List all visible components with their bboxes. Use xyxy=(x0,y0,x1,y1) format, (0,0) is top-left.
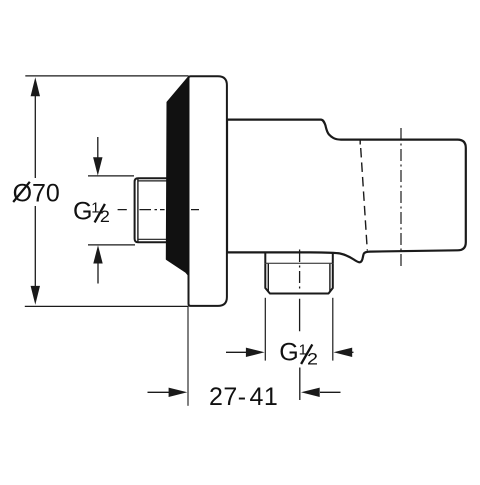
outlet neck right xyxy=(332,253,334,264)
label G1/2 bottom: fraction slash xyxy=(301,344,312,364)
hidden edge dashed line xyxy=(359,139,361,145)
G1/2 left: extension line bottom xyxy=(88,244,135,246)
outlet shoulder xyxy=(265,263,333,265)
G1/2 left: arrow up xyxy=(97,262,99,284)
27-41: arrow right xyxy=(148,391,170,393)
27-41: arrow left xyxy=(320,391,341,393)
inlet thread root bottom xyxy=(139,238,168,240)
escutcheon flange (rounded) xyxy=(189,76,227,306)
arrowhead up O70 xyxy=(31,77,40,96)
G1/2 bottom: extension line right xyxy=(332,298,334,361)
svg-text:G: G xyxy=(279,339,298,367)
G1/2 left: extension line top xyxy=(88,175,134,177)
outlet centerline xyxy=(299,250,301,332)
outlet chamfer line left xyxy=(267,264,269,293)
wall face extension line xyxy=(187,306,189,406)
body outline xyxy=(227,120,466,263)
left connector centerline xyxy=(118,209,199,211)
outlet centerline extension below text xyxy=(299,368,301,401)
G1/2 left: arrow down xyxy=(97,137,99,159)
threaded inlet connector (left, G1/2) xyxy=(135,178,168,242)
outlet neck left xyxy=(264,252,266,263)
outlet chamfer line right xyxy=(329,264,331,293)
svg-text:27-41: 27-41 xyxy=(209,383,278,411)
inlet chamfer line xyxy=(137,179,139,243)
arrowhead down O70 xyxy=(31,286,40,305)
label O70 diameter slash xyxy=(13,182,30,202)
inlet thread root top xyxy=(139,180,168,182)
G1/2 bottom: arrow left xyxy=(351,351,354,353)
svg-text:2: 2 xyxy=(307,350,318,368)
dimension extension line top (O70) xyxy=(25,75,188,77)
outlet thread outline xyxy=(265,264,333,294)
flange cone (black side) xyxy=(167,78,189,275)
G1/2 bottom: extension line left xyxy=(264,298,266,361)
dimension line O70 xyxy=(34,96,36,179)
G1/2 bottom: arrow right xyxy=(226,351,247,353)
label G1/2 left: fraction slash xyxy=(95,204,105,223)
dimension extension line bottom (O70) xyxy=(25,305,189,307)
svg-text:2: 2 xyxy=(100,208,110,226)
body vertical centerline xyxy=(400,128,402,266)
svg-text:G: G xyxy=(73,198,92,226)
